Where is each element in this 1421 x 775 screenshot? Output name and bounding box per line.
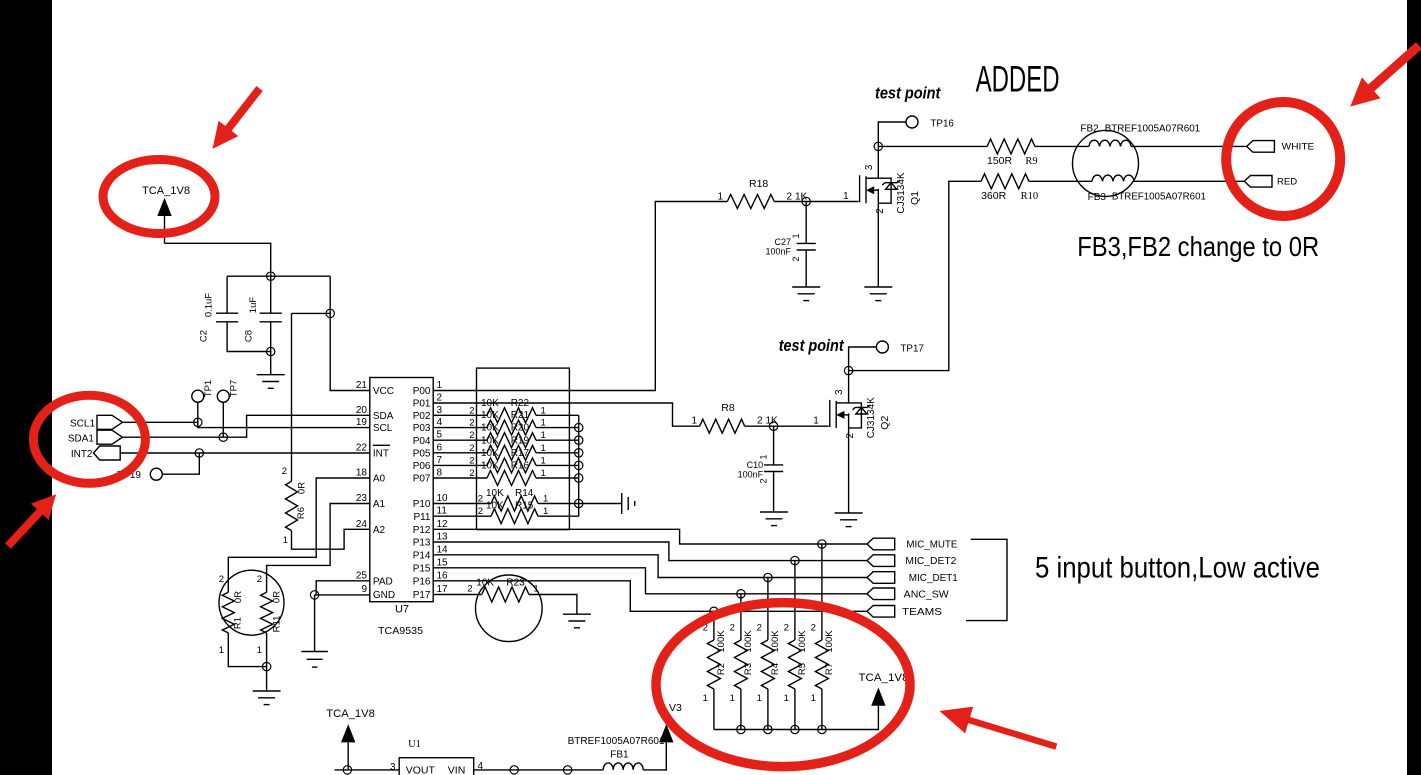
wire SDA1 to SDA pin 20 bbox=[223, 415, 369, 437]
resistor R21 10K bbox=[469, 410, 546, 435]
svg-text:PAD: PAD bbox=[373, 576, 393, 587]
svg-text:TCA_1V8: TCA_1V8 bbox=[326, 708, 375, 720]
wire R19 to bus bbox=[536, 452, 579, 454]
connector SDA1 bbox=[68, 433, 95, 444]
svg-text:2: 2 bbox=[469, 418, 474, 429]
wire R5 bottom wire bbox=[794, 689, 796, 730]
junction PAD/GND bbox=[310, 591, 318, 599]
wire FB1 to V3 bbox=[643, 742, 666, 770]
power symbol TCA_1V8 (bottom) bbox=[326, 708, 375, 742]
svg-text:R2: R2 bbox=[716, 663, 727, 675]
wire pin line to R14 bbox=[433, 503, 491, 505]
label MIC_DET2 bbox=[905, 556, 956, 567]
svg-text:19: 19 bbox=[356, 417, 368, 428]
wire R17 to bus bbox=[536, 464, 579, 466]
power symbol TCA_1V8 (top left) bbox=[142, 185, 190, 216]
svg-text:Q1: Q1 bbox=[909, 191, 921, 205]
wire R23 to ground bbox=[529, 595, 577, 615]
ground (U7 GND) bbox=[301, 652, 328, 668]
annotation arrow (TCA_1V8) bbox=[213, 89, 260, 149]
svg-text:21: 21 bbox=[356, 380, 368, 391]
svg-text:P01: P01 bbox=[413, 399, 431, 410]
wire ANC_SW net bbox=[433, 568, 867, 594]
junction VOUT node bbox=[343, 766, 351, 774]
resistor R20 10K bbox=[469, 423, 546, 448]
label WHITE bbox=[1282, 142, 1315, 153]
wire R4 bottom wire bbox=[767, 689, 769, 730]
wire R7 top wire bbox=[821, 544, 823, 640]
junction SDA1/TP7 bbox=[219, 433, 227, 441]
svg-text:TP7: TP7 bbox=[229, 380, 240, 397]
wire ground stem bbox=[314, 595, 316, 652]
svg-text:20: 20 bbox=[356, 405, 368, 416]
junction bus bbox=[575, 423, 583, 431]
svg-text:1K: 1K bbox=[766, 416, 779, 427]
svg-text:2: 2 bbox=[845, 432, 856, 438]
junction R18/C27 bbox=[802, 197, 810, 205]
junction bus bbox=[764, 725, 772, 733]
svg-text:VCC: VCC bbox=[373, 386, 394, 397]
svg-text:C2: C2 bbox=[199, 330, 210, 342]
svg-text:P16: P16 bbox=[413, 576, 431, 587]
resistor R16 10K bbox=[469, 461, 546, 486]
wire P17 line bbox=[433, 594, 482, 596]
wire SDA1 wire bbox=[123, 436, 224, 438]
wire pin line to R21 bbox=[433, 427, 487, 429]
svg-text:TEAMS: TEAMS bbox=[902, 607, 942, 618]
ferrite bead FB3 bbox=[1088, 175, 1207, 203]
wire power stem bbox=[347, 742, 349, 770]
svg-text:100K: 100K bbox=[770, 630, 781, 653]
connector MIC_MUTE bbox=[867, 538, 895, 550]
svg-text:2: 2 bbox=[478, 506, 483, 517]
test point TP16 bbox=[906, 116, 954, 130]
svg-text:R4: R4 bbox=[770, 663, 781, 675]
resistor R22 10K bbox=[469, 398, 546, 423]
wire pin line to R17 bbox=[433, 464, 487, 466]
wire MIC_DET2 net bbox=[433, 542, 867, 561]
circle mark around FB2/FB3 bbox=[1073, 130, 1139, 196]
wire SCL1 to SCL pin 19 bbox=[198, 422, 370, 427]
resistor R14 10K bbox=[478, 488, 549, 511]
wire A0 pin 18 to R1 bbox=[228, 478, 369, 592]
label ANC_SW bbox=[904, 589, 950, 600]
svg-text:C27: C27 bbox=[774, 237, 791, 247]
regulator U1 bbox=[390, 739, 484, 775]
wire R7 bottom wire bbox=[821, 689, 823, 730]
svg-text:VOUT: VOUT bbox=[406, 765, 436, 775]
svg-text:1: 1 bbox=[757, 693, 762, 704]
svg-text:P13: P13 bbox=[413, 538, 431, 549]
svg-text:MIC_DET2: MIC_DET2 bbox=[905, 556, 956, 567]
svg-text:R18: R18 bbox=[749, 178, 768, 190]
wire Q1 source wire bbox=[877, 203, 879, 287]
svg-text:FB3,FB2 change to 0R: FB3,FB2 change to 0R bbox=[1077, 231, 1319, 262]
wire pin line to R15 bbox=[433, 515, 491, 517]
svg-text:C10: C10 bbox=[747, 460, 764, 470]
wire VIN wire bbox=[474, 769, 604, 771]
svg-text:2: 2 bbox=[478, 494, 483, 505]
wire R20 to bus bbox=[536, 439, 579, 441]
svg-text:2: 2 bbox=[467, 584, 472, 595]
junction MIC_DET1/pullup bbox=[764, 573, 772, 581]
svg-text:TCA9535: TCA9535 bbox=[378, 625, 423, 637]
test point TP19 bbox=[117, 468, 162, 481]
transistor Q2 CJ3134K bbox=[813, 389, 891, 439]
wire R5 top wire bbox=[794, 561, 796, 640]
capacitor C2 0.1uF bbox=[199, 276, 271, 351]
label MIC_MUTE bbox=[906, 540, 957, 551]
left black bar bbox=[0, 0, 52, 775]
svg-text:U7: U7 bbox=[395, 604, 409, 616]
svg-text:CJ3134K: CJ3134K bbox=[866, 397, 877, 438]
transistor Q1 CJ3134K bbox=[843, 164, 921, 214]
wire pin line to R20 bbox=[433, 439, 487, 441]
svg-text:1: 1 bbox=[717, 192, 723, 203]
connector MIC_DET2 bbox=[867, 555, 895, 567]
capacitor C27 100nF bbox=[765, 202, 815, 288]
wire R15 to bus bbox=[538, 515, 579, 517]
capacitor C8 1uF bbox=[244, 276, 282, 351]
svg-text:0R: 0R bbox=[297, 482, 308, 494]
connector symbol SCL1 bbox=[97, 415, 123, 429]
wire R1 bottom bbox=[228, 633, 266, 667]
svg-text:P07: P07 bbox=[413, 474, 431, 485]
annotation circle (WHITE/RED) bbox=[1226, 102, 1340, 216]
junction SCL1/TP1 bbox=[194, 418, 202, 426]
svg-text:1: 1 bbox=[703, 693, 708, 704]
junction TEAMS/pullup bbox=[710, 607, 718, 615]
wire Q2 source wire bbox=[848, 428, 850, 513]
junction Q2 drain/TP17 bbox=[844, 366, 852, 374]
svg-text:10K: 10K bbox=[481, 435, 499, 446]
junction INT2/TP19 bbox=[195, 449, 203, 457]
resistor R10 360R bbox=[981, 174, 1038, 202]
svg-text:9: 9 bbox=[361, 584, 367, 595]
ferrite bead FB1 bbox=[568, 736, 665, 770]
svg-text:100nF: 100nF bbox=[738, 470, 764, 480]
svg-text:R7: R7 bbox=[824, 663, 835, 675]
power symbol V3 bbox=[659, 702, 682, 742]
junction R1/R11 bbox=[262, 662, 270, 670]
wire R21 to bus bbox=[536, 427, 579, 429]
wire R6 bottom to A2 pin 24 bbox=[292, 529, 370, 549]
ground (R23) bbox=[563, 614, 591, 628]
junction bus bbox=[818, 725, 826, 733]
svg-text:25: 25 bbox=[356, 570, 368, 581]
circle mark around R1/R11 bbox=[219, 570, 284, 635]
svg-text:10K: 10K bbox=[481, 448, 499, 459]
svg-text:100K: 100K bbox=[743, 630, 754, 653]
label MIC_DET1 bbox=[909, 573, 958, 584]
resistor R18 1K bbox=[717, 178, 807, 209]
ground (C10) bbox=[760, 512, 788, 526]
svg-text:P02: P02 bbox=[413, 411, 431, 422]
svg-text:P17: P17 bbox=[413, 590, 431, 601]
svg-text:10K: 10K bbox=[486, 488, 504, 499]
connector WHITE bbox=[1247, 141, 1275, 153]
connector MIC_DET1 bbox=[867, 572, 895, 584]
svg-text:1: 1 bbox=[283, 535, 288, 546]
svg-text:1: 1 bbox=[759, 454, 769, 459]
wire P00 to R18 bbox=[433, 202, 727, 391]
wire R11 bottom bbox=[266, 633, 268, 667]
wire R4 top wire bbox=[767, 578, 769, 641]
svg-text:P06: P06 bbox=[413, 461, 431, 472]
wire TP1 stem bbox=[197, 402, 199, 422]
junction bbox=[510, 766, 518, 774]
svg-text:R14: R14 bbox=[515, 488, 534, 499]
svg-text:1: 1 bbox=[257, 645, 262, 656]
wire TEAMS net bbox=[433, 581, 867, 612]
annotation arrow (pullups) bbox=[940, 707, 1057, 747]
svg-text:TP16: TP16 bbox=[930, 119, 954, 130]
wire FB2 to WHITE bbox=[1131, 145, 1247, 147]
svg-text:14: 14 bbox=[437, 544, 449, 555]
node junction C2/C8 top bbox=[267, 272, 275, 280]
svg-text:2: 2 bbox=[257, 574, 262, 585]
svg-text:R5: R5 bbox=[797, 663, 808, 675]
svg-text:GND: GND bbox=[373, 590, 395, 601]
junction bus bbox=[791, 725, 799, 733]
right black bar bbox=[1407, 0, 1421, 775]
svg-text:24: 24 bbox=[356, 519, 368, 530]
svg-text:A2: A2 bbox=[373, 525, 386, 536]
test point TP17 bbox=[876, 341, 924, 354]
junction bus bbox=[575, 474, 583, 482]
svg-text:12: 12 bbox=[437, 519, 449, 530]
svg-text:0.1uF: 0.1uF bbox=[204, 293, 215, 317]
wire FB3 to RED bbox=[1134, 180, 1244, 182]
svg-text:6: 6 bbox=[437, 442, 443, 453]
svg-text:2: 2 bbox=[469, 405, 474, 416]
power symbol TCA_1V8 (pullups) bbox=[859, 672, 909, 706]
svg-text:TCA_1V8: TCA_1V8 bbox=[142, 185, 190, 197]
svg-text:R9: R9 bbox=[1025, 156, 1037, 167]
wire to C2/C8 node bbox=[165, 243, 271, 276]
resistor R4 100K bbox=[757, 623, 781, 705]
bracket (5 input buttons) bbox=[966, 539, 1007, 620]
wire INT2 wire to INT pin 22 bbox=[120, 452, 370, 454]
svg-text:2: 2 bbox=[875, 208, 886, 214]
svg-text:FB3: FB3 bbox=[1088, 192, 1107, 203]
wire pin line to R19 bbox=[433, 452, 487, 454]
wire tap to R6 feed bbox=[292, 312, 331, 314]
svg-text:10: 10 bbox=[437, 493, 449, 504]
wire P01 to R8 bbox=[433, 403, 699, 426]
svg-text:C8: C8 bbox=[244, 330, 255, 342]
svg-text:V3: V3 bbox=[669, 702, 682, 714]
ground (Q1 source) bbox=[864, 287, 892, 301]
svg-text:P00: P00 bbox=[413, 386, 431, 397]
svg-text:R15: R15 bbox=[515, 501, 534, 512]
junction MIC_MUTE/pullup bbox=[818, 540, 826, 548]
wire R10 to FB3 bbox=[1029, 180, 1092, 182]
junction bus bbox=[575, 461, 583, 469]
svg-text:3: 3 bbox=[390, 762, 396, 773]
resistor R5 100K bbox=[784, 623, 808, 705]
svg-text:BTREF1005A07R601: BTREF1005A07R601 bbox=[568, 736, 665, 747]
annotation circle (TCA_1V8 top left) bbox=[103, 160, 215, 234]
wire R16 to bus bbox=[536, 477, 579, 479]
junction bus bbox=[737, 725, 745, 733]
junction R8/C10 bbox=[769, 422, 777, 430]
junction bbox=[563, 766, 571, 774]
svg-text:SCL1: SCL1 bbox=[70, 418, 95, 429]
svg-text:5: 5 bbox=[437, 430, 443, 441]
wire Q2 drain wire bbox=[848, 371, 850, 403]
wire R3 bottom wire bbox=[740, 689, 742, 730]
svg-text:A0: A0 bbox=[373, 474, 386, 485]
resistor R2 100K bbox=[703, 623, 727, 705]
junction Q1 drain/TP16 bbox=[874, 142, 882, 150]
svg-text:R8: R8 bbox=[721, 402, 735, 414]
wire pullup bottom bus bbox=[714, 706, 879, 730]
svg-text:SDA: SDA bbox=[373, 411, 394, 422]
svg-text:0R: 0R bbox=[233, 591, 244, 603]
svg-text:13: 13 bbox=[437, 532, 449, 543]
svg-text:MIC_MUTE: MIC_MUTE bbox=[906, 540, 957, 551]
svg-text:15: 15 bbox=[437, 557, 449, 568]
svg-text:100K: 100K bbox=[797, 630, 808, 653]
connector symbol SDA1 bbox=[97, 430, 123, 444]
resistor R3 100K bbox=[730, 623, 754, 705]
node junction VCC branch tap bbox=[326, 309, 334, 317]
svg-text:1: 1 bbox=[437, 380, 443, 391]
svg-text:R17: R17 bbox=[511, 448, 530, 459]
svg-text:2: 2 bbox=[757, 416, 763, 427]
svg-text:10K: 10K bbox=[481, 461, 499, 472]
resistor R6 0R bbox=[282, 466, 308, 546]
svg-text:P12: P12 bbox=[413, 525, 431, 536]
svg-text:11: 11 bbox=[437, 506, 448, 517]
wire A1 pin 23 to R11 bbox=[267, 504, 370, 593]
svg-text:2: 2 bbox=[469, 455, 474, 466]
svg-text:22: 22 bbox=[356, 442, 368, 453]
connector TEAMS bbox=[867, 606, 895, 618]
ground (R1/R11) bbox=[253, 691, 281, 705]
wire R9 to FB2 bbox=[1035, 145, 1089, 147]
resistor R15 10K bbox=[478, 501, 549, 524]
resistor network outline box bbox=[477, 368, 570, 529]
svg-text:R23: R23 bbox=[506, 578, 525, 589]
ground (C2/C8) bbox=[257, 375, 285, 389]
svg-text:2: 2 bbox=[811, 623, 816, 634]
svg-text:2: 2 bbox=[730, 623, 735, 634]
svg-text:2: 2 bbox=[469, 468, 474, 479]
svg-text:R19: R19 bbox=[511, 435, 530, 446]
svg-text:10K: 10K bbox=[481, 423, 499, 434]
svg-text:1: 1 bbox=[791, 233, 801, 238]
svg-text:P10: P10 bbox=[413, 499, 431, 510]
wire R6 feed vertical bbox=[291, 313, 293, 481]
svg-text:R10: R10 bbox=[1021, 191, 1039, 202]
wire resistor bus vertical bbox=[578, 415, 580, 516]
wire TP19 stem bbox=[162, 453, 199, 474]
wire R3 top wire bbox=[740, 594, 742, 640]
wire PAD pin 25 jog bbox=[316, 581, 370, 595]
svg-text:RED: RED bbox=[1277, 177, 1297, 188]
wire VOUT wire bbox=[335, 769, 400, 771]
junction bus bbox=[575, 449, 583, 457]
connector SCL1 bbox=[70, 418, 95, 429]
svg-text:2: 2 bbox=[219, 574, 224, 585]
svg-text:R6: R6 bbox=[296, 507, 307, 519]
circle mark around R23 bbox=[476, 575, 543, 642]
resistor R7 100K bbox=[811, 623, 835, 705]
wire R2 bottom wire bbox=[713, 689, 715, 730]
svg-text:R16: R16 bbox=[511, 461, 530, 472]
ferrite bead FB2 bbox=[1080, 123, 1200, 146]
annotation ellipse (pullup resistors) bbox=[656, 603, 910, 767]
svg-text:0R: 0R bbox=[272, 591, 283, 603]
svg-text:R20: R20 bbox=[511, 423, 530, 434]
label TEAMS bbox=[902, 607, 942, 618]
wire pin line to R22 bbox=[433, 414, 487, 416]
svg-text:A1: A1 bbox=[373, 499, 386, 510]
svg-text:3: 3 bbox=[437, 405, 443, 416]
resistor R19 10K bbox=[469, 435, 546, 460]
wire pin line to R16 bbox=[433, 477, 487, 479]
wire R18 to Q1 gate bbox=[774, 201, 858, 203]
ground (Q2 source) bbox=[835, 513, 863, 527]
annotation text: test point (TP16) bbox=[875, 84, 942, 103]
wire ground stem bbox=[266, 667, 268, 691]
svg-text:2: 2 bbox=[282, 466, 287, 477]
annotation arrow (WHITE/RED) bbox=[1350, 46, 1419, 107]
svg-text:7: 7 bbox=[437, 455, 443, 466]
svg-text:R21: R21 bbox=[511, 410, 530, 421]
svg-text:VIN: VIN bbox=[448, 765, 466, 775]
svg-text:P15: P15 bbox=[413, 563, 431, 574]
svg-text:INT: INT bbox=[373, 448, 389, 459]
svg-text:4: 4 bbox=[437, 417, 443, 428]
svg-text:2: 2 bbox=[759, 478, 769, 483]
svg-text:2: 2 bbox=[437, 393, 443, 404]
svg-text:FB1: FB1 bbox=[610, 750, 629, 761]
svg-text:1: 1 bbox=[843, 191, 849, 202]
svg-text:360R: 360R bbox=[981, 190, 1007, 202]
svg-text:P03: P03 bbox=[413, 423, 431, 434]
wire R22 to bus bbox=[536, 414, 579, 416]
svg-text:2: 2 bbox=[784, 623, 789, 634]
svg-text:17: 17 bbox=[437, 584, 449, 595]
annotation text FB3,FB2 change to 0R bbox=[1077, 231, 1319, 262]
wire TP7 stem bbox=[222, 402, 224, 437]
wire VCC branch to pin 21 bbox=[330, 276, 370, 390]
svg-text:8: 8 bbox=[437, 468, 443, 479]
annotation circle (SCL1/SDA1/INT2) bbox=[33, 395, 145, 483]
wire Q1 drain to R9 bbox=[878, 145, 987, 147]
svg-text:1uF: 1uF bbox=[248, 297, 259, 314]
test point TP7 bbox=[217, 380, 239, 402]
junction bus bbox=[575, 499, 583, 507]
U7 right pin names and numbers bbox=[413, 380, 448, 601]
svg-text:WHITE: WHITE bbox=[1282, 142, 1315, 153]
svg-text:150R: 150R bbox=[987, 155, 1013, 167]
op-amp U7 TCA9535 IC body bbox=[370, 378, 433, 638]
svg-text:R3: R3 bbox=[743, 663, 754, 675]
svg-text:MIC_DET1: MIC_DET1 bbox=[909, 573, 958, 584]
svg-text:ANC_SW: ANC_SW bbox=[904, 589, 950, 600]
svg-text:TP1: TP1 bbox=[203, 380, 214, 397]
junction ANC_SW/pullup bbox=[737, 590, 745, 598]
svg-text:BTREF1005A07R601: BTREF1005A07R601 bbox=[1112, 192, 1206, 203]
connector RED bbox=[1244, 176, 1272, 188]
svg-text:INT2: INT2 bbox=[71, 449, 93, 460]
svg-text:test point: test point bbox=[875, 84, 942, 103]
wire GND pin 9 wire bbox=[315, 594, 370, 596]
